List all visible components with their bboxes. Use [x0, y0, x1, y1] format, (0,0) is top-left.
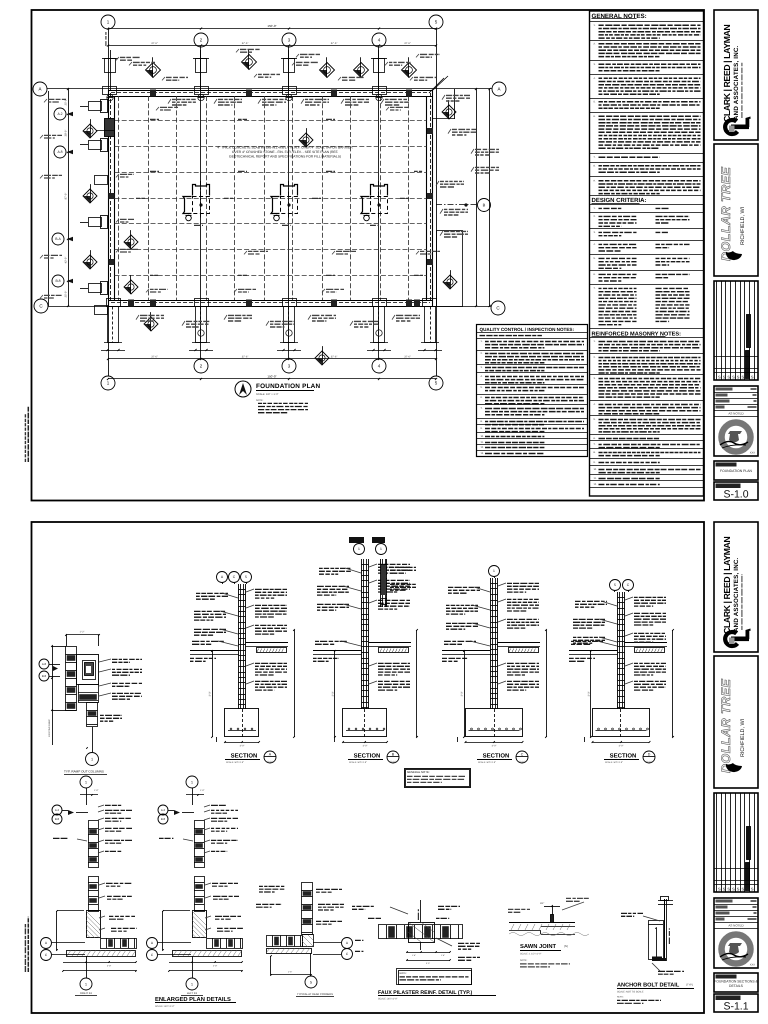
svg-text:RIGHT K2: RIGHT K2 [80, 992, 92, 995]
detail 3 grid bubbles [342, 938, 353, 949]
svg-text:A.8: A.8 [57, 150, 62, 154]
grid line C [48, 306, 491, 308]
enlarged detail LEFT K2 grid bubbles [147, 938, 158, 949]
right dimension line [476, 89, 478, 306]
grid bubble 5 top [429, 15, 443, 29]
title block: issue info and seal [714, 386, 758, 456]
general notes panel [590, 11, 704, 496]
svg-text:AS NOTED: AS NOTED [728, 923, 744, 927]
ramp-out detail stem [87, 703, 98, 727]
ramp-out detail column block [77, 655, 99, 685]
svg-text:37'-6": 37'-6" [404, 356, 411, 359]
svg-text:SECTION: SECTION [354, 753, 381, 760]
svg-text:S: S [723, 375, 726, 380]
enlarged detail LEFT K2 left bubbles [158, 805, 168, 815]
bottom wall pilaster at x=379 [374, 307, 385, 343]
bottom wall pilaster at x=201 [196, 307, 207, 343]
anchor bolt pocket [649, 921, 664, 960]
shearwall diamond marker (153,70) [146, 63, 161, 78]
title block: sheet number box [714, 994, 758, 1012]
svg-text:S: S [737, 887, 740, 892]
svg-text:13.: 13. [481, 452, 485, 455]
section B footing dims [343, 742, 387, 744]
svg-text:S: S [732, 375, 735, 380]
svg-text:3'-0": 3'-0" [461, 691, 464, 696]
shearwall diamond marker (151,324) [144, 317, 158, 331]
title block: revisions table [714, 281, 758, 380]
ramp-out detail left dim [52, 646, 54, 710]
svg-text:ENLARGED PLAN DETAILS: ENLARGED PLAN DETAILS [155, 996, 231, 1003]
svg-text:DESIGN CRITERIA:: DESIGN CRITERIA: [592, 197, 647, 204]
svg-text:2'-0": 2'-0" [213, 965, 218, 968]
grid bubble A right [492, 82, 506, 96]
svg-text:AS NOTED: AS NOTED [728, 411, 744, 415]
svg-text:OVER 4" CRUSHED STONE - FIN. F: OVER 4" CRUSHED STONE - FIN. FLR. ELEV. … [232, 150, 338, 154]
faux pilaster dims [407, 952, 450, 954]
svg-text:1: 1 [85, 982, 87, 986]
svg-text:A.2: A.2 [161, 808, 166, 812]
enlarged detail RIGHT K2 lower wall cells [89, 877, 99, 912]
svg-text:11.: 11. [594, 477, 597, 480]
svg-text:S: S [751, 887, 754, 892]
shearwall diamond marker (449,112) [442, 105, 456, 119]
section B slab left [313, 650, 362, 652]
svg-text:3/4": 3/4" [540, 902, 544, 905]
svg-text:1: 1 [191, 982, 193, 986]
title block: firm logo box [714, 522, 758, 652]
svg-text:ANCHOR BOLT DETAIL: ANCHOR BOLT DETAIL [617, 983, 680, 989]
enlarged detail RIGHT K2 horizontal wall cells [101, 939, 137, 949]
svg-text:4" THICK CONCRETE SLAB W/ 6x6-: 4" THICK CONCRETE SLAB W/ 6x6-W1.4xW1.4 … [217, 146, 353, 150]
sheet 1 left margin plot text [27, 407, 29, 462]
leader note blocks around plan [172, 98, 196, 100]
faux pilaster reinf detail band [379, 925, 463, 939]
section C left dim [464, 651, 466, 737]
section D left dim [590, 651, 592, 737]
shearwall diamond marker (90,196) [83, 189, 97, 203]
top dimension line bays [108, 45, 436, 47]
section D bubbles [610, 580, 621, 591]
svg-text:3'-0": 3'-0" [332, 691, 335, 696]
grid line 3 [288, 47, 290, 359]
title block: sheet title box [714, 973, 758, 992]
interior joint dim labels [150, 118, 159, 120]
shearwall diamond marker (327,70) [320, 63, 335, 78]
svg-text:DETAILS: DETAILS [729, 984, 744, 988]
detail 3 corner hatch [303, 935, 314, 947]
interior slab joint grid [118, 96, 120, 300]
section A leader notes [255, 588, 287, 590]
section D right dim [672, 630, 674, 737]
top wall pilaster at x=289 [284, 59, 295, 73]
foundation plan title [235, 381, 251, 397]
quality control / inspection notes panel [477, 325, 588, 457]
anchor bolt hook [652, 957, 666, 962]
shearwall diamond marker (322,358) [315, 351, 329, 365]
svg-text:SAWN JOINT: SAWN JOINT [520, 943, 557, 950]
svg-text:25'-0": 25'-0" [65, 291, 68, 298]
ramp-out column enlarged detail [66, 634, 99, 636]
enlarged detail LEFT K2 bottom bubble [186, 978, 198, 990]
svg-text:42'-0": 42'-0" [65, 257, 68, 264]
svg-text:AND ASSOCIATES, INC.: AND ASSOCIATES, INC. [733, 557, 740, 632]
svg-text:37'-6": 37'-6" [242, 356, 249, 359]
svg-text:1: 1 [358, 547, 360, 551]
left dimension line [68, 89, 70, 306]
project logo blob [726, 251, 742, 260]
section B wall [361, 559, 363, 709]
svg-text:SECTION: SECTION [610, 753, 637, 760]
svg-text:1'-4": 1'-4" [412, 954, 416, 957]
enlarged detail RIGHT K2 upper grid bubble [80, 776, 92, 788]
section C slab right [498, 642, 541, 644]
enlarged detail RIGHT K2 dims [56, 911, 58, 950]
grid bubble 1 top [101, 15, 115, 29]
SE exterior pad [437, 231, 463, 307]
grid line 4 [378, 47, 380, 359]
svg-text:SCALE: 3/4"=1'-0": SCALE: 3/4"=1'-0" [349, 761, 367, 764]
section C footing [466, 709, 523, 737]
ramp-out detail lower cells [79, 685, 99, 703]
building walls [108, 90, 433, 92]
svg-text:S-1.0: S-1.0 [390, 761, 396, 764]
title block: sheet number box [714, 482, 758, 500]
svg-text:S: S [737, 375, 740, 380]
ramp-out detail lower-left dim [52, 710, 54, 745]
svg-text:1: 1 [91, 757, 93, 761]
section B mast bubbles [354, 544, 365, 555]
interior column footings [193, 185, 210, 196]
svg-text:3'-0": 3'-0" [588, 691, 591, 696]
svg-text:1'-4": 1'-4" [441, 954, 445, 957]
svg-text:1: 1 [493, 569, 495, 573]
svg-text:12.: 12. [594, 483, 598, 486]
svg-text:NOTE:: NOTE: [256, 399, 264, 402]
section D wall [617, 592, 619, 709]
shearwall diamond marker (131,287) [124, 280, 138, 294]
section C bubbles [489, 566, 500, 577]
top wall pilaster at x=379 [374, 59, 385, 73]
svg-text:B.8: B.8 [55, 279, 60, 283]
svg-text:NOTE:: NOTE: [617, 996, 624, 999]
svg-text:S: S [742, 887, 745, 892]
anchor bolt washer and nut [658, 900, 673, 902]
sawn joint detail [509, 922, 575, 924]
svg-text:NOTE:: NOTE: [400, 972, 408, 975]
svg-text:FOUNDATION SECTIONS &: FOUNDATION SECTIONS & [714, 980, 758, 984]
grid line 5 [436, 29, 438, 376]
svg-text:4'-0": 4'-0" [492, 745, 497, 748]
faux pilaster leader notes [368, 917, 381, 919]
enlarged detail LEFT K2 bottom hatch band [173, 951, 242, 957]
shearwall diamond marker (90,131) [83, 124, 97, 138]
general note box sheet2 [405, 769, 471, 788]
svg-text:FOUNDATION PLAN: FOUNDATION PLAN [720, 469, 753, 473]
section A bubbles [217, 572, 228, 583]
section D footing dims [593, 742, 650, 744]
enlarged detail RIGHT K2 upper leader notes [105, 804, 121, 806]
grid line B with right bubble [436, 204, 477, 206]
enlarged detail LEFT K2 corner hatch block [193, 911, 207, 938]
project logo blob [726, 763, 742, 772]
left bubble arrows [67, 112, 73, 116]
svg-text:1'-2": 1'-2" [80, 631, 85, 634]
svg-text:37'-6": 37'-6" [331, 42, 338, 45]
enlarged detail RIGHT K2 bottom hatch band [67, 951, 136, 957]
svg-text:B.A: B.A [55, 237, 61, 241]
svg-text:DOLLAR TREE: DOLLAR TREE [719, 166, 733, 261]
svg-text:AND ASSOCIATES, INC.: AND ASSOCIATES, INC. [733, 45, 740, 120]
svg-text:S: S [742, 375, 745, 380]
engineer seal [722, 935, 751, 964]
shearwall diamond marker (131,242) [124, 235, 138, 249]
section A left dim [212, 651, 214, 737]
detail 3 leader notes [316, 888, 342, 890]
svg-text:S-1.0: S-1.0 [267, 761, 273, 764]
svg-text:SCALE: 1/8" = 1'-0": SCALE: 1/8" = 1'-0" [256, 393, 279, 396]
svg-text:B.8: B.8 [42, 674, 47, 678]
grid bubble 5 bottom [429, 376, 443, 390]
title block: sheet title box [714, 461, 758, 480]
section C footing dims [466, 742, 523, 744]
grid bubble A.8 [54, 146, 66, 158]
svg-text:A: A [38, 87, 41, 92]
svg-text:S: S [732, 887, 735, 892]
detail 3 dims [270, 956, 272, 975]
grid bubble 4 top [372, 33, 386, 47]
svg-text:RICHFIELD, WI: RICHFIELD, WI [740, 719, 746, 757]
left wall pilasters [89, 102, 102, 111]
enlarged detail LEFT K2 upper grid bubble [186, 776, 198, 788]
enlarged detail LEFT K2 upper wall cells [195, 821, 205, 868]
svg-text:S: S [727, 887, 730, 892]
svg-text:S-1.1: S-1.1 [723, 1001, 748, 1013]
section B second mast [380, 559, 382, 607]
section D leader notes [634, 596, 666, 598]
svg-text:B.8: B.8 [161, 817, 166, 821]
svg-text:S: S [718, 887, 721, 892]
svg-text:S: S [718, 375, 721, 380]
svg-text:SCALE: 3/4"=1'-0": SCALE: 3/4"=1'-0" [155, 1005, 175, 1008]
grid line 2 [200, 47, 202, 359]
svg-text:5: 5 [614, 583, 616, 587]
enlarged detail LEFT K2 horizontal wall cells [207, 939, 243, 949]
svg-text:SCALE: 1 1/2"=1'-0": SCALE: 1 1/2"=1'-0" [520, 953, 542, 956]
section B footing [343, 709, 387, 737]
section D slab right [625, 642, 668, 644]
svg-text:SCALE: 3/4"=1'-0": SCALE: 3/4"=1'-0" [226, 761, 244, 764]
section A slab left [190, 650, 239, 652]
enlarged detail RIGHT K2 leader notes lower [106, 882, 132, 884]
grid bubble B.8 [52, 275, 64, 287]
faux pilaster centerline [420, 900, 422, 922]
enlarged detail RIGHT K2 corner hatch block [87, 911, 101, 938]
enlarged detail LEFT K2 leader notes lower [212, 882, 238, 884]
svg-text:S: S [723, 887, 726, 892]
section A footing dims [225, 742, 259, 744]
sheet 2 border (S-1.1) [32, 522, 705, 1013]
section C leader notes [507, 582, 539, 584]
firm CL logo glyph [725, 629, 750, 646]
svg-text:2'-0": 2'-0" [107, 965, 112, 968]
svg-text:5: 5 [310, 980, 312, 984]
svg-text:150'-0": 150'-0" [267, 24, 276, 28]
grid line A [47, 88, 492, 90]
enlarged detail RIGHT K2 bottom bubble [80, 978, 92, 990]
svg-text:A.2: A.2 [55, 808, 60, 812]
svg-text:1: 1 [85, 780, 87, 784]
svg-text:A.8: A.8 [42, 662, 47, 666]
grid bubble 2 top [194, 33, 208, 47]
svg-text:4'-0": 4'-0" [619, 745, 624, 748]
svg-text:NOTE:: NOTE: [520, 959, 528, 962]
svg-text:D: D [648, 753, 651, 757]
section C slab left [442, 650, 491, 652]
svg-text:10.: 10. [481, 435, 485, 438]
svg-text:TYP. RAMP OUT COLUMNS: TYP. RAMP OUT COLUMNS [64, 770, 104, 774]
section B leader notes [378, 563, 410, 565]
svg-text:S-1.0: S-1.0 [519, 761, 525, 764]
title block: issue info and seal [714, 898, 758, 968]
top wall pilaster at x=110 [105, 59, 116, 73]
detail 3 left arm cells [267, 936, 303, 947]
svg-text:11.: 11. [481, 441, 484, 444]
section C right dim [546, 630, 548, 737]
section A wall [238, 584, 240, 709]
svg-text:6'-0": 6'-0" [44, 948, 48, 951]
shearwall diamond marker (409,70) [402, 63, 417, 78]
ramp-out detail left wall cells [66, 647, 77, 711]
svg-text:12.: 12. [481, 446, 485, 449]
section B right dim [416, 630, 418, 737]
enlarged detail RIGHT K2 left bubbles [52, 805, 62, 815]
bottom wall pilaster at x=289 [284, 307, 295, 343]
grid bubble 4 bottom [372, 359, 386, 373]
svg-text:37'-6": 37'-6" [404, 42, 411, 45]
shearwall diamond marker (90,262) [83, 255, 97, 269]
grid bubble 3 bottom [282, 359, 296, 373]
svg-text:(N): (N) [564, 944, 568, 948]
detail 3 bottom bubble [305, 976, 317, 988]
grid bubble A [33, 82, 47, 96]
svg-text:S: S [746, 375, 749, 380]
svg-text:GENERAL NOTE:: GENERAL NOTE: [407, 770, 430, 774]
title block: revisions table [714, 793, 758, 892]
svg-text:S-1.0: S-1.0 [646, 761, 652, 764]
svg-text:XXX: XXX [750, 452, 755, 455]
top wall pilaster at x=201 [196, 59, 207, 73]
faux pilaster center block [409, 923, 435, 943]
firm CL logo glyph [725, 117, 750, 134]
NE corner cut diagonal [433, 76, 448, 90]
svg-text:XXX: XXX [750, 964, 755, 967]
wall pilaster dark marks [150, 90, 156, 97]
svg-text:3'-0": 3'-0" [426, 962, 430, 965]
svg-text:SCALE: NOT TO SCALE: SCALE: NOT TO SCALE [617, 991, 644, 994]
svg-text:CLARK | REED | LAYMAN: CLARK | REED | LAYMAN [722, 537, 732, 634]
ramp-out detail leader notes [112, 658, 142, 660]
section D slab left [569, 650, 618, 652]
svg-text:37'-6": 37'-6" [242, 42, 249, 45]
svg-text:S: S [746, 887, 749, 892]
ramp-out detail grid bubbles [39, 659, 49, 669]
section B slab right [369, 642, 412, 644]
grid bubble 2 bottom [194, 359, 208, 373]
svg-text:SECTION: SECTION [483, 753, 510, 760]
title block: firm logo box [714, 10, 758, 140]
svg-text:37'-6": 37'-6" [331, 356, 338, 359]
svg-text:38'-0": 38'-0" [65, 130, 68, 137]
anchor bolt embedment dim [656, 928, 658, 958]
svg-text:B: B [483, 202, 486, 207]
svg-text:37'-6": 37'-6" [151, 42, 158, 45]
grid line 1 [108, 29, 110, 376]
anchor bolt leaders [621, 912, 643, 914]
svg-text:87'-0": 87'-0" [65, 193, 68, 200]
title block: project name box [714, 656, 758, 788]
svg-text:B.8: B.8 [55, 817, 60, 821]
svg-text:A: A [497, 87, 500, 92]
svg-text:3'-0": 3'-0" [209, 691, 212, 696]
svg-text:10.: 10. [594, 468, 598, 471]
svg-text:QUALITY CONTROL / INSPECTION N: QUALITY CONTROL / INSPECTION NOTES: [480, 327, 575, 332]
svg-text:S-1.0: S-1.0 [723, 489, 748, 501]
shearwall diamond marker (450,282) [443, 275, 457, 289]
top dimension line overall [108, 28, 436, 30]
svg-text:S: S [727, 375, 730, 380]
grid 1 matchline text [105, 32, 107, 46]
svg-text:1: 1 [191, 780, 193, 784]
svg-text:5: 5 [245, 575, 247, 579]
svg-text:C: C [521, 753, 524, 757]
sheet 1 border (S-1.0) [32, 10, 705, 501]
svg-text:FOUNDATION PLAN: FOUNDATION PLAN [256, 383, 320, 390]
svg-text:GEOTECHNICAL REPORT AND SPECIF: GEOTECHNICAL REPORT AND SPECIFICATIONS F… [229, 155, 341, 159]
section A right dim [294, 630, 296, 737]
sheet 2 left margin plot text [27, 917, 29, 972]
enlarged detail 3 (typical at rear corners) [302, 883, 313, 935]
enlarged detail RIGHT K2 upper wall cells [89, 821, 99, 868]
svg-text:EXISTING RAMP: EXISTING RAMP [48, 719, 51, 737]
svg-text:GENERAL NOTES:: GENERAL NOTES: [592, 13, 647, 20]
faux pilaster note box [397, 969, 472, 985]
top-left corner entry jog [108, 96, 110, 130]
section D footing [593, 709, 650, 737]
title block: project name box [714, 144, 758, 276]
grid bubble 3 top [282, 33, 296, 47]
svg-text:SCALE: 3/4"=1'-0": SCALE: 3/4"=1'-0" [605, 761, 623, 764]
bottom dimension lines [108, 358, 436, 360]
grid bubble B.A [52, 233, 64, 245]
detail 3 bottom hatch band [267, 949, 312, 954]
enlarged detail LEFT K2 dims [162, 911, 164, 950]
svg-text:1'-0": 1'-0" [200, 789, 205, 792]
svg-text:1'-4": 1'-4" [288, 971, 293, 974]
grid bubble A.2 [54, 108, 66, 120]
grid bubble C right [491, 301, 505, 315]
grid bubble C left [34, 299, 48, 313]
section C wall [490, 578, 492, 709]
svg-text:150'-0": 150'-0" [267, 375, 276, 379]
svg-text:LEFT K2: LEFT K2 [187, 992, 198, 995]
svg-text:DOLLAR TREE: DOLLAR TREE [719, 678, 733, 773]
engineer seal [722, 423, 751, 452]
svg-text:SCALE: 3/4"=1'-0": SCALE: 3/4"=1'-0" [378, 998, 398, 1001]
svg-text:1: 1 [380, 547, 382, 551]
svg-text:SCALE: 3/4"=1'-0": SCALE: 3/4"=1'-0" [478, 761, 496, 764]
svg-text:1'-0": 1'-0" [94, 789, 99, 792]
NE exterior pad [454, 89, 456, 119]
